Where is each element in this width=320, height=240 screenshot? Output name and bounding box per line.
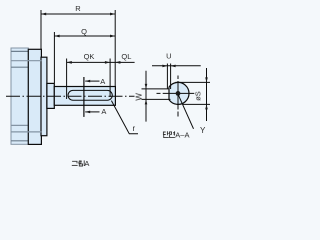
dimension S line — [206, 68, 208, 121]
dimension W line — [145, 71, 147, 122]
hangul 면 — [170, 132, 172, 134]
center tap hole Y — [176, 91, 181, 96]
casing parting line upper (crosses flange) — [11, 60, 41, 62]
hangul 단 — [163, 132, 165, 135]
svg-text:Q: Q — [81, 27, 87, 36]
extension line QK right (flat end) — [109, 59, 111, 98]
extension line U right — [170, 64, 172, 90]
svg-text:Y: Y — [200, 126, 206, 135]
dimension QK line — [67, 61, 111, 63]
hangul 그 — [72, 161, 77, 163]
dimension Q line — [54, 35, 115, 37]
housing rib line 3 — [11, 66, 28, 68]
dimension QL arrow — [115, 61, 120, 64]
svg-text:A: A — [100, 77, 105, 86]
section arrow lower — [85, 111, 99, 113]
dimension QK left arrow — [67, 61, 72, 64]
section horizontal centerline — [157, 92, 195, 94]
svg-text:øS: øS — [193, 91, 202, 101]
dimension U right arrow — [171, 65, 176, 68]
extension line W bottom — [142, 98, 171, 100]
svg-text:W: W — [135, 93, 144, 101]
svg-text:R: R — [75, 4, 81, 13]
section arrow upper — [85, 80, 99, 82]
svg-text:A: A — [84, 159, 89, 168]
extension line S bottom — [183, 103, 210, 105]
section title 단면A-A (hand-drawn hangul strokes) — [163, 131, 175, 137]
casing parting line lower (crosses flange) — [11, 131, 41, 133]
mounting flange — [28, 49, 41, 144]
shaft flat (milled) outline — [68, 90, 112, 100]
output shaft — [54, 87, 115, 106]
dimension QL tail line — [110, 61, 135, 63]
svg-text:r: r — [132, 124, 135, 133]
housing rib line 1 — [11, 50, 28, 52]
section vertical centerline — [177, 76, 179, 117]
extension line shaft end (R,Q right / QL) — [114, 10, 116, 87]
leader Y — [178, 94, 194, 129]
dimension S bottom arrow — [205, 104, 208, 109]
dimension Q right arrow — [110, 35, 115, 38]
extension line QK left (flat start) — [66, 59, 68, 100]
dimension R line — [41, 13, 115, 15]
dimension QK right arrow — [105, 61, 110, 64]
hangul 림 — [79, 161, 81, 163]
svg-text:A: A — [101, 107, 106, 116]
fillet leader r — [111, 101, 138, 134]
section line A-A upper — [83, 77, 85, 117]
dimension Q left arrow — [54, 35, 59, 38]
bearing boss — [41, 57, 47, 136]
dimension R right arrow — [110, 13, 115, 16]
housing rib line 4 — [11, 124, 28, 126]
extension line W top — [142, 88, 169, 90]
extension line U left — [166, 64, 168, 90]
bearing cap — [47, 83, 54, 108]
svg-text:QK: QK — [84, 52, 95, 61]
svg-text:U: U — [166, 51, 171, 60]
dimension W top arrow — [145, 84, 148, 89]
extension line S top — [175, 81, 210, 83]
dimension S top arrow — [205, 77, 208, 82]
shaft centerline — [6, 95, 135, 97]
svg-text:A–A: A–A — [175, 130, 189, 139]
dimension U line — [152, 65, 201, 67]
figure title 그림A (hand-drawn hangul strokes) — [72, 160, 84, 166]
housing rib line 6 — [11, 140, 28, 142]
svg-text:QL: QL — [121, 52, 131, 61]
dimension W bottom arrow — [145, 99, 148, 104]
dimension U left arrow — [162, 65, 167, 68]
extension line R left (flange face) — [40, 10, 42, 49]
gear housing body — [11, 48, 28, 144]
section A-A circle (shaft cross-section) — [169, 82, 189, 104]
dimension R left arrow — [41, 13, 46, 16]
extension line Q left (shaft shoulder) — [53, 32, 55, 83]
